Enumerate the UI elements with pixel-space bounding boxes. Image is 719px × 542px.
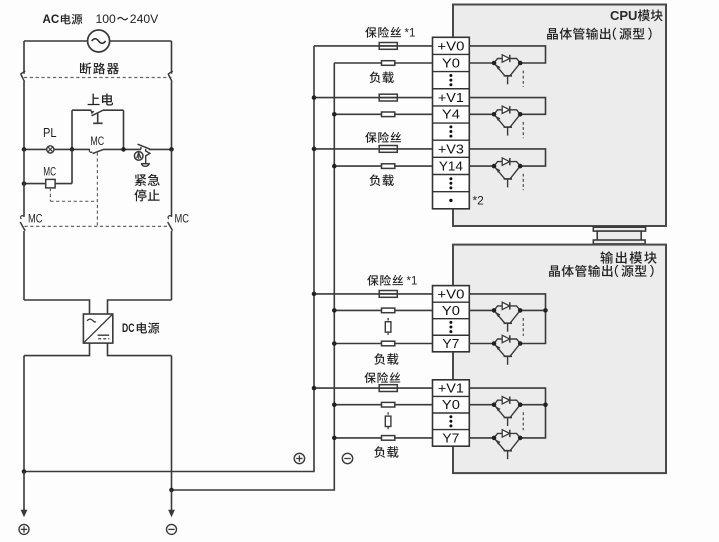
transistor output out1 Y0 (PNP with parallel diode) bbox=[492, 302, 523, 332]
wire AC to DC supply left bbox=[24, 300, 90, 314]
wire left rail lower bbox=[23, 356, 25, 472]
junction minus bus Y0 out1 bbox=[332, 308, 337, 313]
wire Y0 to transistor (output 2) bbox=[469, 404, 494, 406]
load resistor 负载 bbox=[382, 164, 395, 169]
wire Y output (CPU Y14) bbox=[469, 165, 494, 167]
junction minus bus Y7 out2 bbox=[332, 436, 337, 441]
label 保险丝 (output 2) bbox=[364, 372, 400, 383]
junction plus bus +V1 bbox=[312, 95, 317, 100]
mechanical linkage MC coil (dashed) bbox=[50, 188, 97, 201]
terminal dots (output 2) bbox=[449, 415, 452, 427]
junction plus bus +V3 bbox=[312, 147, 317, 152]
terminal plus symbol bottom bbox=[19, 524, 29, 534]
label 100～240V bbox=[96, 12, 160, 26]
label 负载 (output 1) bbox=[374, 353, 398, 365]
wire control rail segment 4 bbox=[149, 148, 172, 150]
svg-text:MC: MC bbox=[28, 211, 43, 225]
svg-text:+V1: +V1 bbox=[438, 91, 464, 105]
load resistor 负载 bbox=[382, 112, 395, 117]
mechanical linkage bottom (dashed) bbox=[25, 225, 171, 227]
junction plus bus +V0 out bbox=[312, 292, 317, 297]
wire +V1 row (CPU) bbox=[314, 97, 433, 99]
terminal dots rows (CPU) bbox=[449, 74, 452, 202]
terminal marker plus (bus label) bbox=[294, 453, 304, 463]
DC power supply U1 bbox=[83, 314, 112, 343]
svg-text:*2: *2 bbox=[473, 193, 485, 207]
wire Y4 row (CPU) bbox=[334, 113, 432, 115]
transistor output out2 Y0 (PNP with parallel diode) bbox=[492, 397, 523, 427]
svg-text:PL: PL bbox=[43, 126, 57, 140]
junction left rail / plus branch bbox=[22, 469, 27, 474]
CPU module subtitle 晶体管输出(源型) bbox=[547, 28, 651, 40]
circuit breaker linkage (dashed) bbox=[24, 77, 172, 79]
load resistor 负载 bbox=[382, 436, 395, 441]
terminal marker minus (bus label) bbox=[342, 453, 352, 463]
junction minus bus Y4 bbox=[332, 112, 337, 117]
svg-text:Y14: Y14 bbox=[439, 160, 463, 174]
wire Y0 to transistor (output 1) bbox=[469, 309, 494, 311]
svg-text:Y0: Y0 bbox=[442, 398, 460, 412]
output module title 输出模块 bbox=[600, 251, 656, 263]
load resistor 负载 bbox=[382, 61, 395, 66]
circuit breaker pole left bbox=[20, 71, 25, 149]
wire +V0 row (CPU) bbox=[314, 45, 433, 47]
wire Y7 row (output 2) bbox=[334, 437, 432, 439]
svg-text:Y4: Y4 bbox=[442, 108, 460, 122]
junction right rail / minus branch bbox=[169, 488, 174, 493]
load resistor 负载 bbox=[382, 308, 395, 313]
wire right rail mid bbox=[171, 149, 173, 216]
output terminal block 2 bbox=[433, 380, 470, 446]
wire +V1 row (output) bbox=[314, 387, 433, 389]
dashed continuation (output 2) bbox=[522, 412, 524, 430]
label AC电源 bbox=[43, 13, 83, 26]
wire +V0 row (output) bbox=[314, 293, 433, 295]
wire DC plus to bus bbox=[24, 46, 314, 472]
transistor output Y4 (PNP with parallel diode) bbox=[492, 106, 523, 136]
svg-text:*1: *1 bbox=[405, 27, 416, 39]
contactor coil MC bbox=[46, 179, 55, 188]
label 断路器 bbox=[80, 63, 119, 75]
wire +V3 row (CPU) bbox=[314, 148, 433, 150]
load resistor 负载 bbox=[382, 341, 395, 346]
fuse 保险丝 bbox=[379, 94, 397, 101]
pilot lamp PL bbox=[47, 146, 54, 153]
label 上电 (power-on button) bbox=[88, 93, 114, 105]
wire DC supply output left bbox=[24, 343, 90, 356]
transistor output Y14 (PNP with parallel diode) bbox=[492, 158, 523, 188]
junction loop Y0 (output 1) bbox=[543, 308, 548, 313]
wire loop branch Y0 (output 2) bbox=[520, 404, 545, 406]
wire Y7 row (output 1) bbox=[334, 343, 432, 345]
wire AC top left bbox=[24, 40, 88, 42]
expansion connector between modules bbox=[593, 227, 645, 244]
svg-text:+V1: +V1 bbox=[438, 382, 464, 396]
svg-text:+V3: +V3 bbox=[438, 142, 464, 156]
svg-text:Y7: Y7 bbox=[442, 337, 459, 351]
wire Y7 to transistor (output 2) bbox=[469, 437, 494, 439]
dashed continuation (CPU Y14) bbox=[522, 174, 524, 190]
wire control rail segment 3 bbox=[103, 148, 141, 150]
DC output minus arrow bbox=[168, 490, 175, 517]
emergency stop button 紧急停止 bbox=[134, 144, 150, 166]
AC source G1 bbox=[88, 30, 110, 52]
svg-text:DC: DC bbox=[122, 321, 135, 335]
wire Y7 to transistor (output 1) bbox=[469, 343, 494, 345]
junction rail/left box bbox=[70, 147, 75, 152]
push button S1 box right wire bbox=[123, 110, 125, 149]
MC main contact right bbox=[168, 216, 173, 300]
transistor output out1 Y7 (PNP with parallel diode) bbox=[492, 335, 523, 365]
svg-text:Y0: Y0 bbox=[442, 304, 460, 318]
fuse 保险丝 bbox=[379, 291, 397, 298]
junction plus bus +V1 out bbox=[312, 386, 317, 391]
MC auxiliary contact on rail bbox=[89, 149, 103, 153]
mechanical linkage rail contact (dashed) bbox=[96, 153, 98, 227]
svg-text:MC: MC bbox=[90, 136, 104, 148]
junction rail/right rail bbox=[169, 147, 174, 152]
svg-text:MC: MC bbox=[175, 211, 190, 225]
label 紧急停止 bbox=[134, 174, 159, 202]
label 保险丝 (CPU lower) bbox=[365, 132, 401, 143]
fuse 保险丝 bbox=[379, 385, 397, 392]
load resistor (intermediate channels) bbox=[385, 412, 391, 430]
label 负载 (CPU lower) bbox=[370, 174, 394, 186]
push button S1 contact bbox=[72, 110, 124, 123]
wire AC top right bbox=[110, 40, 172, 42]
wire Y14 row (CPU) bbox=[334, 165, 432, 167]
CPU module box bbox=[453, 5, 666, 227]
junction loop Y0 (output 2) bbox=[543, 402, 548, 407]
wire Y0 row (output 2) bbox=[334, 404, 432, 406]
label DC电源 bbox=[122, 321, 159, 335]
wire control rail segment 1 bbox=[24, 148, 47, 150]
CPU terminal block bbox=[433, 37, 470, 209]
junction minus bus Y7 out1 bbox=[332, 341, 337, 346]
fuse 保险丝 bbox=[379, 43, 397, 50]
wire left rail mid bbox=[23, 149, 25, 216]
wire +V feed loop (CPU Y4) bbox=[469, 98, 545, 115]
wire +V feed loop (output 2) bbox=[469, 388, 545, 438]
fuse 保险丝 bbox=[379, 146, 397, 153]
load resistor 负载 bbox=[382, 402, 395, 407]
wire Y0 row (CPU) bbox=[334, 62, 432, 64]
output terminal block 1 bbox=[433, 286, 470, 352]
wire DC minus to bus bbox=[172, 63, 335, 490]
transistor output Y0 (PNP with parallel diode) bbox=[492, 55, 523, 85]
wire Y output (CPU Y0) bbox=[469, 62, 494, 64]
transistor output out2 Y7 (PNP with parallel diode) bbox=[492, 430, 523, 460]
wire Y0 row (output 1) bbox=[334, 309, 432, 311]
junction left rail coil branch bbox=[22, 181, 27, 186]
wire control rail segment 2 bbox=[54, 148, 90, 150]
label 保险丝 *1 (CPU) bbox=[365, 27, 415, 40]
output module box bbox=[453, 245, 666, 474]
wire +V feed loop (CPU Y0) bbox=[469, 46, 545, 63]
load resistor (intermediate channels) bbox=[385, 318, 391, 336]
svg-text:240V: 240V bbox=[130, 12, 159, 26]
svg-text:+V0: +V0 bbox=[437, 287, 464, 301]
terminal dots (output 1) bbox=[449, 321, 452, 333]
dashed continuation (output 1) bbox=[522, 318, 524, 336]
dashed continuation (CPU Y4) bbox=[522, 122, 524, 138]
svg-text:CPU: CPU bbox=[610, 8, 637, 23]
wire DC supply output right bbox=[108, 343, 172, 356]
label 保险丝 *1 (output) bbox=[367, 275, 417, 288]
dashed continuation (CPU Y0) bbox=[522, 71, 524, 87]
output module subtitle 晶体管输出(源型) bbox=[549, 265, 653, 277]
push button S1 box left wire bbox=[71, 110, 73, 149]
wire AC to DC supply right bbox=[108, 300, 172, 314]
junction rail/left rail bbox=[22, 147, 27, 152]
MC main contact left bbox=[20, 216, 25, 300]
svg-text:MC: MC bbox=[43, 166, 56, 178]
svg-text:Y7: Y7 bbox=[442, 431, 459, 445]
wire Y output (CPU Y4) bbox=[469, 113, 494, 115]
DC output plus arrow bbox=[21, 472, 28, 518]
junction minus bus Y14 bbox=[332, 164, 337, 169]
wire left rail upper bbox=[23, 41, 25, 74]
svg-text:+V0: +V0 bbox=[437, 39, 464, 53]
svg-text:Y0: Y0 bbox=[442, 56, 460, 70]
svg-text:100: 100 bbox=[96, 12, 117, 26]
wire +V feed loop (output 1) bbox=[469, 294, 545, 344]
wire +V feed loop (CPU Y14) bbox=[469, 149, 545, 166]
label 负载 (output 2) bbox=[374, 446, 398, 458]
wire right rail lower bbox=[171, 356, 173, 490]
junction rail/right box bbox=[121, 147, 126, 152]
circuit breaker pole right bbox=[168, 41, 173, 149]
wire left rail to MC coil bbox=[24, 183, 46, 185]
svg-text:AC: AC bbox=[43, 13, 60, 26]
wire MC coil to rail junction bbox=[55, 149, 72, 183]
junction minus bus Y0 out2 bbox=[332, 402, 337, 407]
wire loop branch Y0 (output 1) bbox=[520, 309, 545, 311]
svg-text:*1: *1 bbox=[407, 275, 418, 287]
terminal minus symbol bottom bbox=[167, 524, 177, 534]
label 负载 (CPU upper) bbox=[370, 72, 394, 84]
